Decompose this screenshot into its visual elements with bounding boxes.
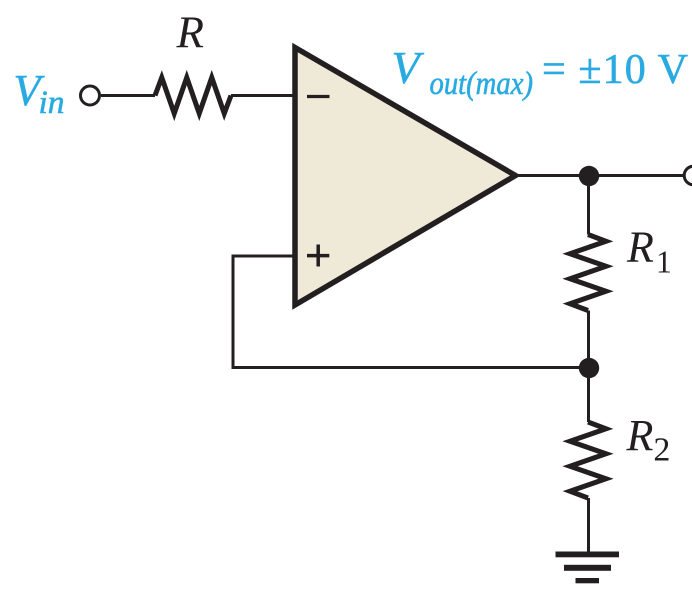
plus sign noninverting input bbox=[307, 245, 329, 267]
resistor R1 bbox=[570, 235, 606, 311]
wire feedback node to R2 bbox=[587, 368, 590, 422]
wire input left bbox=[101, 94, 155, 97]
wire input right bbox=[231, 94, 295, 97]
svg-text:R1: R1 bbox=[626, 223, 672, 280]
ground bbox=[556, 552, 620, 584]
resistor R2 bbox=[570, 422, 606, 498]
label Vout(max) = ±10 V bbox=[392, 42, 689, 102]
resistor R bbox=[155, 78, 231, 114]
minus sign inverting input bbox=[307, 95, 330, 98]
wire R1 to feedback node bbox=[587, 311, 590, 369]
svg-text:V: V bbox=[392, 42, 425, 93]
wire output bbox=[515, 174, 683, 177]
svg-text:= ±10 V: = ±10 V bbox=[542, 47, 688, 93]
svg-text:R: R bbox=[176, 8, 205, 58]
op-amp U1 bbox=[295, 48, 516, 306]
wire R2 to ground bbox=[587, 498, 590, 552]
junction dot output node bbox=[579, 166, 599, 186]
svg-text:in: in bbox=[39, 85, 65, 121]
input terminal Vin bbox=[81, 86, 100, 105]
wire output node to R1 bbox=[587, 176, 590, 235]
label Vin bbox=[14, 66, 65, 121]
svg-text:R2: R2 bbox=[626, 411, 671, 469]
output terminal bbox=[684, 166, 692, 185]
junction dot feedback node bbox=[579, 358, 599, 378]
svg-text:out(max): out(max) bbox=[430, 66, 534, 102]
wire noninverting input bbox=[233, 256, 589, 368]
